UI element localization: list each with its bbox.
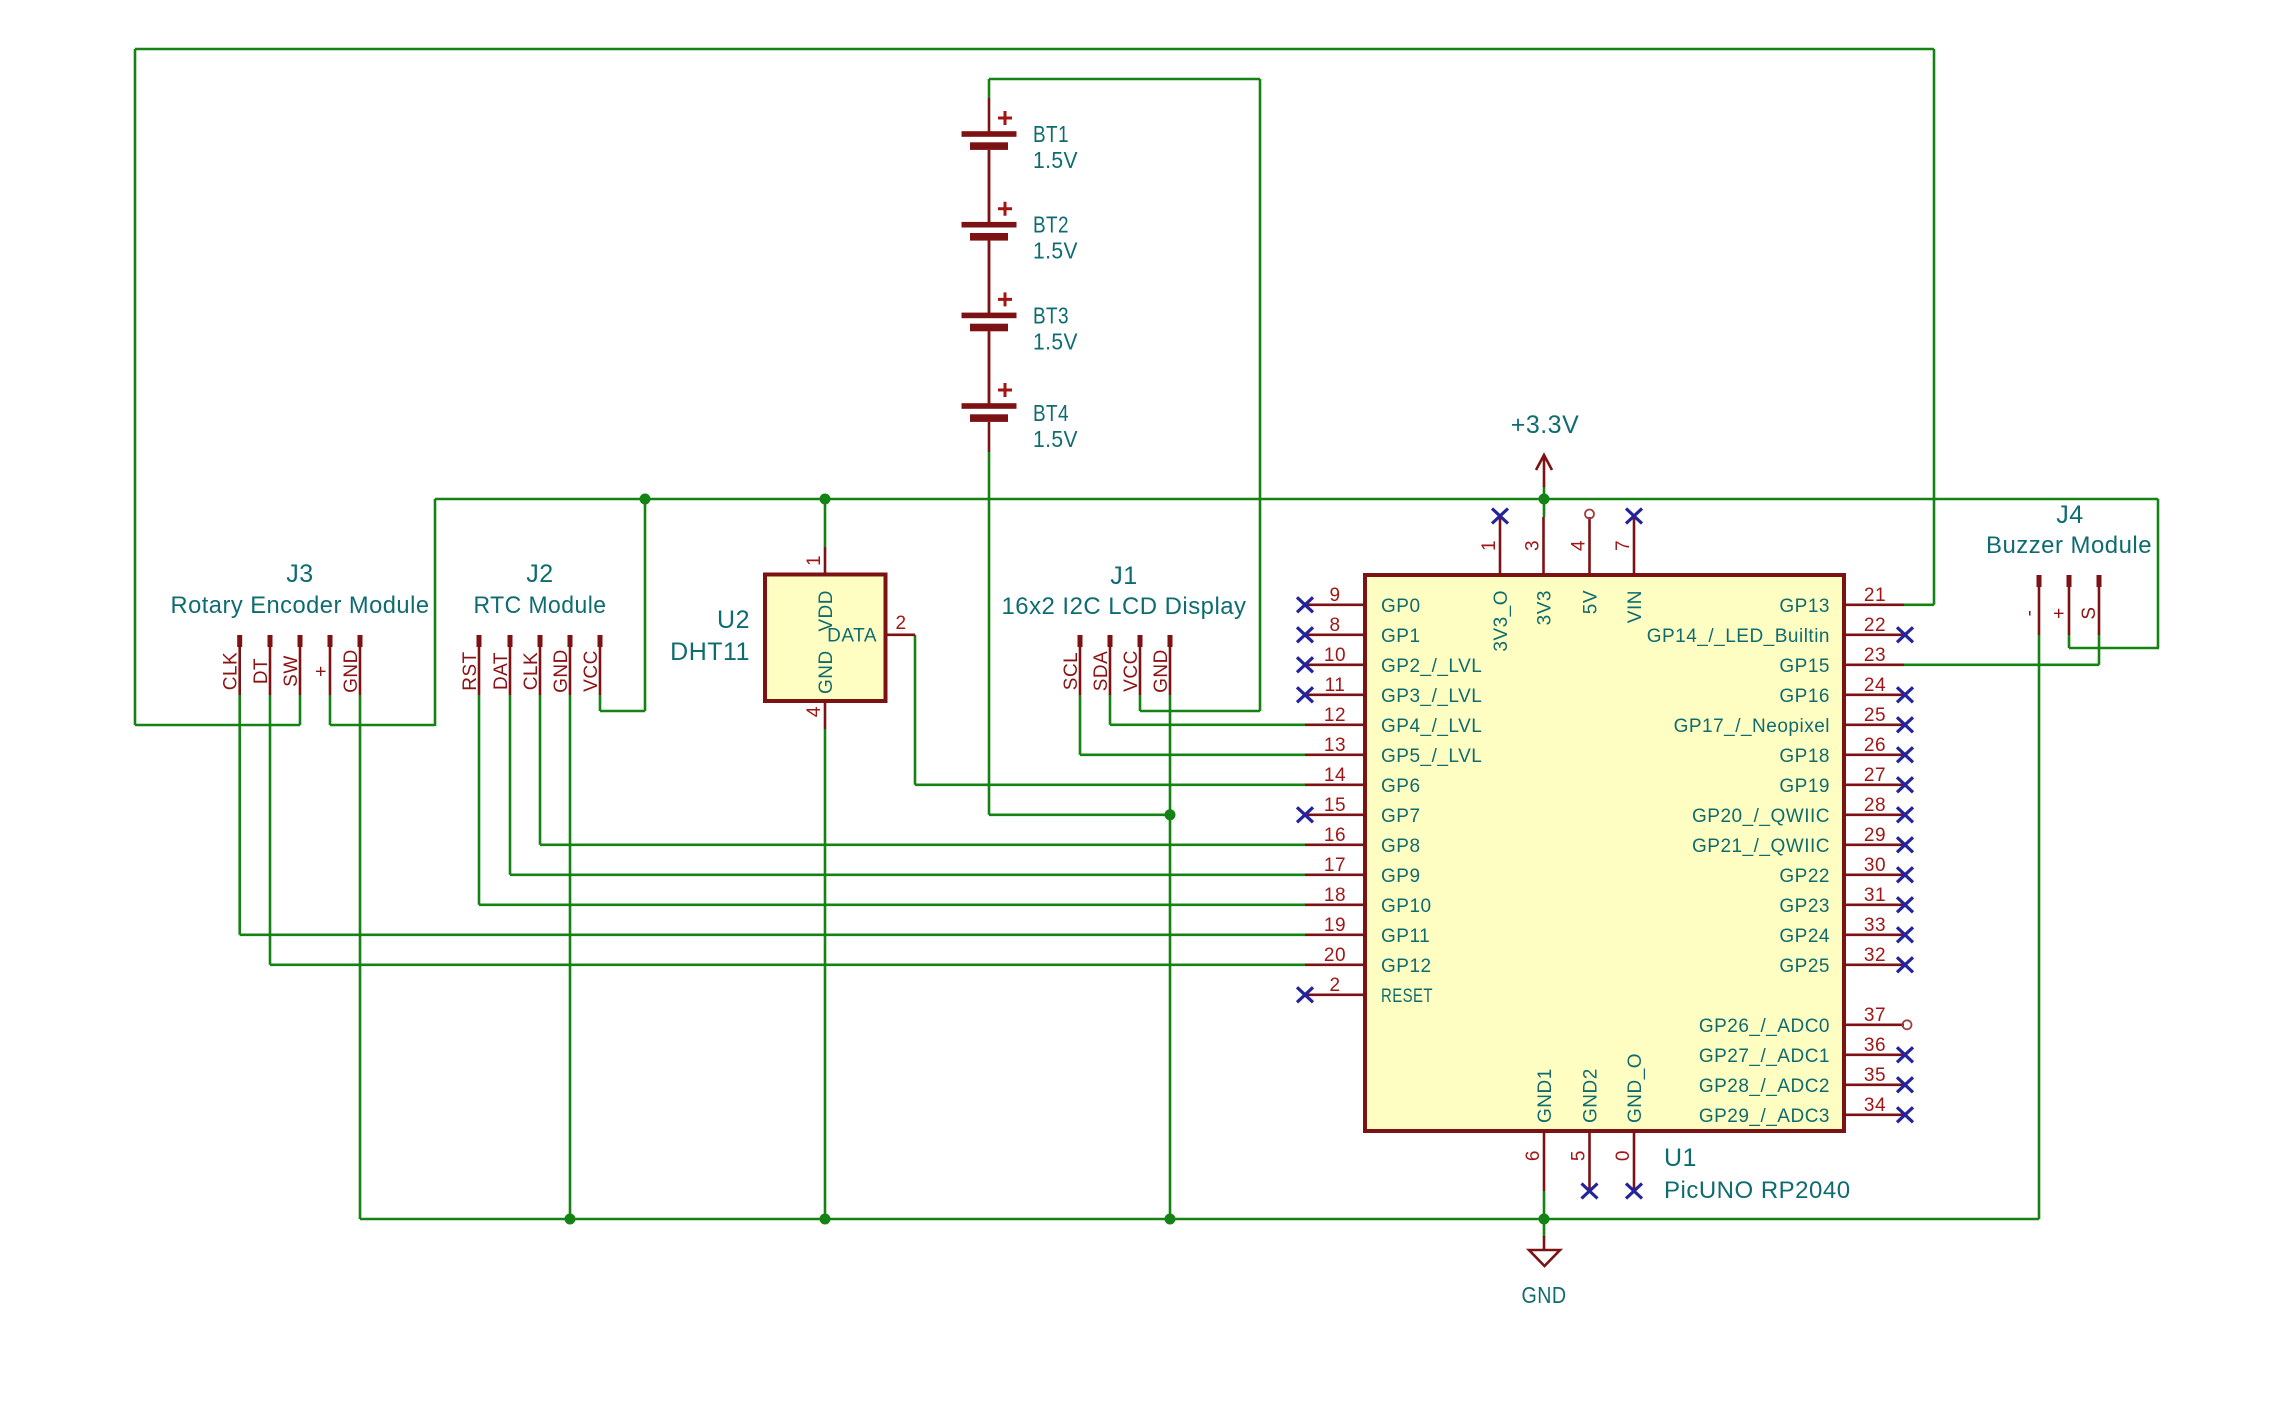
wire +3.3V riser at x=435 xyxy=(434,499,437,726)
svg-text:13: 13 xyxy=(1324,735,1346,756)
connector J4 value xyxy=(1986,532,2152,559)
svg-text:31: 31 xyxy=(1864,885,1886,906)
wire rail to buzzer + xyxy=(2069,647,2159,650)
J3 pin + xyxy=(311,635,333,695)
battery BT4 xyxy=(962,331,1017,422)
wire buzzer S stub xyxy=(2098,635,2101,665)
svg-text:GP20_/_QWIIC: GP20_/_QWIIC xyxy=(1692,806,1830,827)
U1 pin 29 (GP21_/_QWIIC) xyxy=(1692,825,1913,857)
svg-text:-: - xyxy=(2019,610,2040,617)
svg-text:GP15: GP15 xyxy=(1779,656,1830,677)
J1 pin SCL xyxy=(1061,635,1083,695)
battery BT1 xyxy=(962,98,1017,150)
power symbol +3.3V xyxy=(1536,455,1552,487)
U1 pin 2 (RESET) xyxy=(1297,975,1433,1007)
svg-text:4: 4 xyxy=(804,706,825,717)
svg-text:GND2: GND2 xyxy=(1581,1068,1602,1123)
svg-text:RST: RST xyxy=(460,651,481,691)
junction on GND rail at DHT11 GND xyxy=(820,1214,831,1225)
junction battery negative / J1 GND xyxy=(1165,809,1176,820)
svg-text:VIN: VIN xyxy=(1625,590,1646,623)
wire battery top horizontal xyxy=(989,78,1260,81)
connector J3 value xyxy=(171,592,430,619)
svg-text:GP19: GP19 xyxy=(1779,776,1830,797)
battery BT3-BT4 link xyxy=(988,331,991,404)
wire J2 GND vertical xyxy=(569,695,572,1219)
U1 pin 25 (GP17_/_Neopixel) xyxy=(1674,705,1913,737)
svg-text:VCC: VCC xyxy=(581,650,602,692)
svg-text:26: 26 xyxy=(1864,735,1886,756)
svg-text:10: 10 xyxy=(1324,645,1346,666)
J3 pin GND xyxy=(341,635,363,695)
wire J3 SW to left frame xyxy=(135,724,300,727)
U1 pin 1 (3V3_O) xyxy=(1479,509,1512,652)
connector J4 title xyxy=(2056,501,2083,529)
svg-text:RTC Module: RTC Module xyxy=(474,592,607,619)
svg-text:GP28_/_ADC2: GP28_/_ADC2 xyxy=(1699,1076,1830,1097)
battery BT1-BT2 link xyxy=(988,150,991,223)
battery BT3 xyxy=(962,241,1017,332)
wire J2 CLK vertical xyxy=(539,695,542,845)
U1 pin 10 (GP2_/_LVL) xyxy=(1297,645,1482,677)
wire battery top stub xyxy=(988,79,991,98)
svg-text:36: 36 xyxy=(1864,1035,1886,1056)
U1 pin 9 (GP0) xyxy=(1297,585,1421,617)
J4 pin + xyxy=(2049,575,2072,635)
svg-text:GP17_/_Neopixel: GP17_/_Neopixel xyxy=(1674,716,1830,737)
BT4 value 1.5V xyxy=(1033,426,1078,452)
wire buzzer - vertical xyxy=(2038,635,2041,1219)
svg-text:GP10: GP10 xyxy=(1381,896,1432,917)
svg-text:33: 33 xyxy=(1864,915,1886,936)
U1 pin 4 (5V) xyxy=(1569,510,1602,615)
wire buzzer + stub xyxy=(2068,635,2071,648)
wire DHT11 DATA vertical xyxy=(914,635,917,785)
svg-text:20: 20 xyxy=(1324,945,1346,966)
svg-text:S: S xyxy=(2079,606,2100,619)
svg-text:1.5V: 1.5V xyxy=(1033,147,1078,173)
svg-text:1: 1 xyxy=(804,555,825,566)
+3.3V label xyxy=(1511,411,1580,439)
svg-text:GP23: GP23 xyxy=(1779,896,1830,917)
U2 pin 1 (VDD) xyxy=(804,547,837,632)
junction on GND rail at U1 GND1 xyxy=(1539,1214,1550,1225)
BT1 reference xyxy=(1033,121,1069,147)
U1 pin 3 (3V3) xyxy=(1523,517,1556,625)
svg-text:GND_O: GND_O xyxy=(1625,1053,1646,1123)
wire battery to LCD VCC xyxy=(1140,710,1260,713)
BT1 value 1.5V xyxy=(1033,147,1078,173)
connector J2 title xyxy=(526,560,553,588)
svg-text:PicUNO RP2040: PicUNO RP2040 xyxy=(1664,1177,1851,1204)
svg-text:GND: GND xyxy=(551,649,572,693)
svg-text:21: 21 xyxy=(1864,585,1886,606)
wire J3 CLK to GP11 xyxy=(240,933,1305,936)
svg-text:6: 6 xyxy=(1523,1150,1544,1161)
U1 pin 35 (GP28_/_ADC2) xyxy=(1699,1065,1913,1097)
sensor U2 DHT11 body xyxy=(765,575,886,702)
svg-text:GP9: GP9 xyxy=(1381,866,1421,887)
svg-text:BT3: BT3 xyxy=(1033,302,1069,328)
J2 pin RST xyxy=(460,635,482,695)
svg-text:GP27_/_ADC1: GP27_/_ADC1 xyxy=(1699,1046,1830,1067)
U1 pin 36 (GP27_/_ADC1) xyxy=(1699,1035,1913,1067)
junction on J2 GND at rail xyxy=(565,1214,576,1225)
svg-text:+3.3V: +3.3V xyxy=(1511,411,1580,439)
svg-text:DATA: DATA xyxy=(827,626,877,647)
U1 pin 34 (GP29_/_ADC3) xyxy=(1699,1095,1913,1127)
svg-text:SDA: SDA xyxy=(1091,651,1112,692)
svg-text:14: 14 xyxy=(1324,765,1346,786)
U1 pin 19 (GP11) xyxy=(1305,915,1430,947)
svg-text:GP24: GP24 xyxy=(1779,926,1830,947)
svg-text:3: 3 xyxy=(1523,540,1544,551)
connector J1 title xyxy=(1110,562,1137,590)
wire DHT11 VDD to rail xyxy=(824,499,827,547)
wire J3 GND vertical xyxy=(359,695,362,1219)
svg-text:23: 23 xyxy=(1864,645,1886,666)
U1 pin 16 (GP8) xyxy=(1305,825,1421,857)
junction on +3.3V rail at RTC VCC xyxy=(640,494,651,505)
U1 pin 22 (GP14_/_LED_Builtin) xyxy=(1647,615,1913,647)
wire +3.3V symbol stub xyxy=(1543,486,1546,499)
U1 pin 23 (GP15) xyxy=(1779,645,1904,677)
svg-text:28: 28 xyxy=(1864,795,1886,816)
wire J3 DT vertical xyxy=(269,695,272,965)
svg-text:Rotary Encoder Module: Rotary Encoder Module xyxy=(171,592,430,619)
J1 pin SDA xyxy=(1091,635,1113,695)
U1 pin 13 (GP5_/_LVL) xyxy=(1305,735,1482,767)
svg-text:U1: U1 xyxy=(1664,1144,1697,1172)
U1 pin 18 (GP10) xyxy=(1305,885,1432,917)
wire J3 DT to GP12 xyxy=(270,963,1305,966)
power symbol GND xyxy=(1529,1219,1560,1266)
wire GND bottom rail xyxy=(360,1218,2039,1221)
U1 pin 6 (GND1) xyxy=(1523,1068,1556,1191)
BT3 value 1.5V xyxy=(1033,328,1078,354)
svg-text:11: 11 xyxy=(1325,675,1346,696)
U1 pin 21 (GP13) xyxy=(1779,585,1904,617)
svg-text:GP16: GP16 xyxy=(1779,686,1830,707)
U1 pin 27 (GP19) xyxy=(1779,765,1913,797)
svg-text:1.5V: 1.5V xyxy=(1033,426,1078,452)
wire J2 RST to GP10 xyxy=(479,903,1305,906)
J4 pin S xyxy=(2079,575,2102,635)
junction on +3.3V rail at DHT11 VDD xyxy=(820,494,831,505)
U1 pin 7 (VIN) xyxy=(1613,509,1646,624)
svg-text:16: 16 xyxy=(1324,825,1346,846)
svg-text:SW: SW xyxy=(281,655,302,687)
svg-text:DT: DT xyxy=(251,658,272,684)
svg-text:Buzzer Module: Buzzer Module xyxy=(1986,532,2152,559)
J2 pin CLK xyxy=(521,635,543,695)
svg-text:34: 34 xyxy=(1864,1095,1886,1116)
svg-text:GND: GND xyxy=(1151,649,1172,693)
wire battery right vertical xyxy=(1259,79,1262,711)
svg-text:22: 22 xyxy=(1864,615,1886,636)
svg-text:1: 1 xyxy=(1479,540,1500,551)
svg-text:BT1: BT1 xyxy=(1033,121,1069,147)
wire J1 GND vertical xyxy=(1169,695,1172,1219)
svg-text:GND: GND xyxy=(1522,1282,1567,1308)
svg-text:12: 12 xyxy=(1324,705,1346,726)
wire J2 VCC jog xyxy=(600,499,645,711)
svg-text:3V3_O: 3V3_O xyxy=(1491,590,1512,652)
J2 pin VCC xyxy=(581,635,603,695)
svg-text:J3: J3 xyxy=(286,560,313,588)
svg-text:GP26_/_ADC0: GP26_/_ADC0 xyxy=(1699,1016,1830,1037)
svg-text:GP6: GP6 xyxy=(1381,776,1421,797)
svg-text:GND1: GND1 xyxy=(1535,1068,1556,1123)
svg-text:RESET: RESET xyxy=(1381,986,1433,1007)
svg-text:GP11: GP11 xyxy=(1381,926,1430,947)
svg-text:2: 2 xyxy=(1329,975,1340,996)
J1 pin VCC xyxy=(1121,635,1143,695)
svg-text:GP21_/_QWIIC: GP21_/_QWIIC xyxy=(1692,836,1830,857)
wire battery negative to GND net xyxy=(989,813,1170,816)
wire GP15 to buzzer S xyxy=(1904,663,2099,666)
svg-text:J1: J1 xyxy=(1110,562,1137,590)
svg-text:J4: J4 xyxy=(2056,501,2083,529)
op-amp U1 PicUNO RP2040 body xyxy=(1365,575,1844,1131)
J3 pin CLK xyxy=(221,635,243,695)
U2 pin 2 (DATA) xyxy=(827,613,915,647)
wire J1 VCC stub xyxy=(1139,695,1142,711)
svg-text:18: 18 xyxy=(1324,885,1346,906)
wire J3 CLK vertical xyxy=(238,695,241,935)
wire J1 SDA jog xyxy=(1110,695,1305,725)
J1 pin GND xyxy=(1151,635,1173,695)
svg-text:1.5V: 1.5V xyxy=(1033,328,1078,354)
wire GP13 net: right frame vertical xyxy=(1933,49,1936,605)
wire J3 + stub xyxy=(329,695,332,725)
U1 pin 28 (GP20_/_QWIIC) xyxy=(1692,795,1913,827)
J2 pin DAT xyxy=(491,635,513,695)
wire J2 DAT to GP9 xyxy=(510,873,1305,876)
J3 pin SW xyxy=(281,635,303,695)
svg-text:GP12: GP12 xyxy=(1381,956,1432,977)
U1 reference xyxy=(1664,1144,1697,1172)
svg-text:19: 19 xyxy=(1324,915,1346,936)
svg-text:GP2_/_LVL: GP2_/_LVL xyxy=(1381,656,1482,677)
BT3 reference xyxy=(1033,302,1069,328)
U1 pin 32 (GP25) xyxy=(1779,945,1913,977)
svg-text:GP7: GP7 xyxy=(1381,806,1421,827)
svg-text:GP3_/_LVL: GP3_/_LVL xyxy=(1381,686,1482,707)
svg-text:37: 37 xyxy=(1864,1005,1886,1026)
svg-text:DHT11: DHT11 xyxy=(670,638,750,666)
svg-text:9: 9 xyxy=(1329,585,1340,606)
svg-text:24: 24 xyxy=(1864,675,1886,696)
svg-text:GP4_/_LVL: GP4_/_LVL xyxy=(1381,716,1482,737)
U1 pin 15 (GP7) xyxy=(1297,795,1421,827)
U1 pin 5 (GND2) xyxy=(1569,1068,1602,1198)
wire J2 RST vertical xyxy=(478,695,481,905)
wire J2 CLK to GP8 xyxy=(540,843,1305,846)
wire J1 SCL jog xyxy=(1080,695,1305,755)
svg-text:25: 25 xyxy=(1864,705,1886,726)
U2 pin 4 (GND) xyxy=(804,650,837,729)
battery BT2-BT3 link xyxy=(988,241,991,314)
svg-text:8: 8 xyxy=(1329,615,1340,636)
connector J3 title xyxy=(286,560,313,588)
wire GP13 net: top frame horizontal xyxy=(135,48,1934,51)
svg-text:16x2 I2C LCD Display: 16x2 I2C LCD Display xyxy=(1002,593,1247,620)
svg-text:30: 30 xyxy=(1864,855,1886,876)
U1 pin 0 (GND_O) xyxy=(1613,1053,1646,1199)
svg-text:0: 0 xyxy=(1613,1150,1634,1161)
J2 pin GND xyxy=(551,635,573,695)
battery BT2 xyxy=(962,150,1017,241)
wire J3 SW stub xyxy=(299,695,302,725)
svg-text:SCL: SCL xyxy=(1061,652,1082,690)
BT2 reference xyxy=(1033,212,1069,238)
U1 pin 17 (GP9) xyxy=(1305,855,1421,887)
svg-text:+: + xyxy=(311,665,332,677)
U1 pin 11 (GP3_/_LVL) xyxy=(1297,675,1482,707)
svg-text:3V3: 3V3 xyxy=(1535,590,1556,625)
battery BT4 bottom stub xyxy=(988,422,991,452)
wire rail right corner down xyxy=(2157,499,2160,648)
svg-text:CLK: CLK xyxy=(521,652,542,690)
U1 pin 14 (GP6) xyxy=(1305,765,1421,797)
svg-text:35: 35 xyxy=(1864,1065,1886,1086)
svg-text:GND: GND xyxy=(341,649,362,693)
junction on GND rail at J1 GND xyxy=(1165,1214,1176,1225)
svg-text:2: 2 xyxy=(895,613,906,634)
U1 pin 12 (GP4_/_LVL) xyxy=(1305,705,1482,737)
svg-text:+: + xyxy=(2049,607,2070,619)
svg-text:5V: 5V xyxy=(1581,590,1602,614)
wire 3V3 pin to rail xyxy=(1543,499,1546,517)
svg-text:GP8: GP8 xyxy=(1381,836,1421,857)
wire GP13 net: left frame vertical xyxy=(134,49,137,725)
svg-text:GP1: GP1 xyxy=(1381,626,1421,647)
svg-text:BT2: BT2 xyxy=(1033,212,1069,238)
svg-text:GP18: GP18 xyxy=(1779,746,1830,767)
svg-text:DAT: DAT xyxy=(491,652,512,690)
GND label xyxy=(1522,1282,1567,1308)
junction on rail at U1 3V3 xyxy=(1539,494,1550,505)
svg-text:GP14_/_LED_Builtin: GP14_/_LED_Builtin xyxy=(1647,626,1830,647)
svg-text:GP22: GP22 xyxy=(1779,866,1830,887)
wire DHT11 GND vertical xyxy=(824,729,827,1219)
U1 pin 31 (GP23) xyxy=(1779,885,1913,917)
J4 pin - xyxy=(2019,575,2042,635)
U1 pin 30 (GP22) xyxy=(1779,855,1913,887)
svg-text:GP13: GP13 xyxy=(1779,596,1830,617)
J3 pin DT xyxy=(251,635,273,695)
svg-text:GND: GND xyxy=(816,650,837,694)
svg-text:VCC: VCC xyxy=(1121,650,1142,692)
connector J2 value xyxy=(474,592,607,619)
svg-text:J2: J2 xyxy=(526,560,553,588)
svg-text:32: 32 xyxy=(1864,945,1886,966)
U1 pin 37 (GP26_/_ADC0) xyxy=(1699,1005,1912,1037)
wire J3 + horizontal xyxy=(330,724,435,727)
svg-text:GP25: GP25 xyxy=(1779,956,1830,977)
BT4 reference xyxy=(1033,400,1069,426)
connector J1 value xyxy=(1002,593,1247,620)
wire GP13 pin21 to frame xyxy=(1904,603,1934,606)
svg-text:U2: U2 xyxy=(717,606,750,634)
svg-text:GP29_/_ADC3: GP29_/_ADC3 xyxy=(1699,1106,1830,1127)
svg-text:15: 15 xyxy=(1324,795,1346,816)
svg-text:7: 7 xyxy=(1613,540,1634,551)
svg-text:17: 17 xyxy=(1324,855,1346,876)
svg-text:27: 27 xyxy=(1864,765,1886,786)
U1 pin 33 (GP24) xyxy=(1779,915,1913,947)
svg-text:GP0: GP0 xyxy=(1381,596,1421,617)
wire J2 DAT vertical xyxy=(509,695,512,875)
wire battery negative vertical xyxy=(988,452,991,815)
svg-text:1.5V: 1.5V xyxy=(1033,238,1078,264)
svg-text:4: 4 xyxy=(1569,540,1590,551)
wire DHT11 DATA to GP6 xyxy=(915,783,1305,786)
U1 value PicUNO RP2040 xyxy=(1664,1177,1851,1204)
svg-text:CLK: CLK xyxy=(221,652,242,690)
svg-text:BT4: BT4 xyxy=(1033,400,1069,426)
BT2 value 1.5V xyxy=(1033,238,1078,264)
U1 pin 26 (GP18) xyxy=(1779,735,1913,767)
U1 pin 20 (GP12) xyxy=(1305,945,1432,977)
U1 pin 8 (GP1) xyxy=(1297,615,1421,647)
svg-text:29: 29 xyxy=(1864,825,1886,846)
svg-text:GP5_/_LVL: GP5_/_LVL xyxy=(1381,746,1482,767)
wire +3.3V rail xyxy=(435,498,2158,501)
U2 reference xyxy=(717,606,750,634)
U1 pin 24 (GP16) xyxy=(1779,675,1913,707)
svg-text:5: 5 xyxy=(1569,1150,1590,1161)
U2 value DHT11 xyxy=(670,638,750,666)
wire U1 GND1 stub xyxy=(1543,1191,1546,1219)
